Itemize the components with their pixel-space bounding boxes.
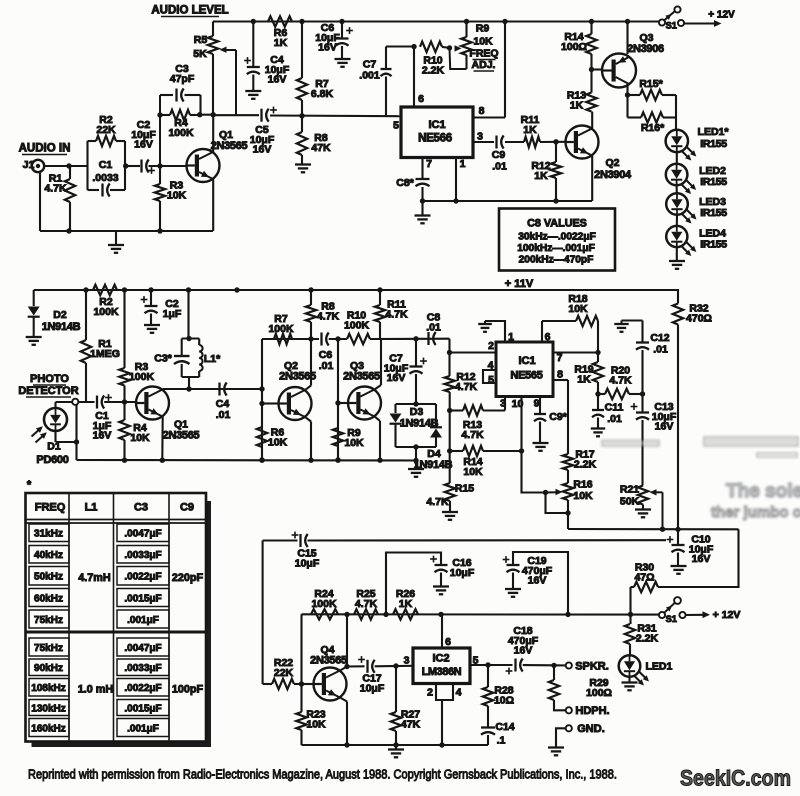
svg-text:4.7K: 4.7K	[461, 429, 484, 441]
svg-text:C1: C1	[99, 159, 113, 171]
svg-text:108kHz: 108kHz	[31, 683, 65, 694]
svg-text:4: 4	[488, 360, 494, 372]
svg-text:6: 6	[418, 93, 424, 105]
svg-text:10μF: 10μF	[295, 557, 320, 569]
svg-text:47pF: 47pF	[170, 73, 195, 85]
svg-text:50K: 50K	[620, 496, 640, 508]
svg-text:PD600: PD600	[36, 454, 68, 466]
svg-text:7: 7	[426, 158, 432, 170]
svg-text:.01: .01	[492, 161, 507, 173]
svg-text:6: 6	[545, 331, 551, 343]
svg-text:10K: 10K	[463, 466, 483, 478]
svg-text:*: *	[27, 479, 32, 491]
svg-text:1N914B: 1N914B	[400, 418, 439, 430]
svg-text:IC1: IC1	[518, 355, 535, 367]
svg-text:100K: 100K	[168, 127, 194, 139]
svg-text:2N3565: 2N3565	[163, 430, 200, 442]
svg-text:FREQ: FREQ	[35, 502, 66, 514]
svg-text:2N3906: 2N3906	[627, 43, 664, 55]
svg-text:ther jumbo opendunal: ther jumbo opendunal	[711, 504, 800, 521]
svg-text:75kHz: 75kHz	[34, 643, 63, 654]
svg-text:.0022μF: .0022μF	[124, 683, 161, 694]
svg-text:1K: 1K	[570, 99, 584, 111]
svg-text:.0033μF: .0033μF	[124, 550, 161, 561]
svg-text:90kHz: 90kHz	[34, 663, 63, 674]
svg-text:10μF: 10μF	[360, 682, 385, 694]
svg-text:.0033μF: .0033μF	[124, 663, 161, 674]
svg-text:1K: 1K	[523, 124, 537, 136]
svg-text:10K: 10K	[568, 303, 588, 315]
svg-text:ADJ.: ADJ.	[472, 59, 496, 71]
svg-text:IR155: IR155	[700, 207, 727, 219]
svg-text:1N914B: 1N914B	[414, 459, 453, 471]
svg-text:4.7K: 4.7K	[317, 310, 340, 322]
svg-text:1: 1	[508, 331, 514, 343]
svg-text:The sole: The sole	[726, 481, 800, 502]
svg-text:50kHz: 50kHz	[34, 572, 63, 583]
svg-text:C9: C9	[180, 502, 194, 514]
svg-text:.001μF: .001μF	[127, 615, 159, 626]
svg-text:R21: R21	[620, 484, 639, 496]
svg-text:IR155: IR155	[700, 138, 727, 150]
svg-text:.0015μF: .0015μF	[124, 593, 161, 604]
svg-text:4.7mH: 4.7mH	[78, 572, 111, 584]
svg-text:75kHz: 75kHz	[34, 615, 63, 626]
svg-text:4.7K: 4.7K	[355, 598, 378, 610]
svg-text:10K: 10K	[268, 436, 288, 448]
svg-text:60kHz: 60kHz	[34, 593, 63, 604]
svg-text:D3: D3	[410, 406, 424, 418]
svg-text:10K: 10K	[130, 432, 150, 444]
svg-text:C9: C9	[492, 149, 506, 161]
svg-text:1.0 mH: 1.0 mH	[78, 684, 114, 696]
svg-text:16V: 16V	[134, 139, 153, 151]
svg-text:.0047μF: .0047μF	[124, 529, 161, 540]
svg-text:SeekIC.com: SeekIC.com	[680, 766, 791, 791]
svg-text:100K: 100K	[268, 323, 294, 335]
svg-text:FREQ: FREQ	[469, 48, 498, 60]
svg-text:L1: L1	[85, 502, 98, 514]
svg-text:GND.: GND.	[577, 723, 605, 735]
svg-text:AUDIO LEVEL: AUDIO LEVEL	[151, 5, 228, 17]
svg-text:2N3904: 2N3904	[594, 169, 632, 181]
svg-text:.0022μF: .0022μF	[124, 572, 161, 583]
svg-text:R15*: R15*	[639, 78, 663, 90]
svg-text:9: 9	[534, 398, 540, 410]
svg-text:C11: C11	[605, 402, 624, 414]
svg-text:LED1*: LED1*	[698, 126, 730, 138]
svg-text:2.2K: 2.2K	[422, 64, 445, 76]
svg-text:22K: 22K	[96, 124, 116, 136]
svg-text:2N3565: 2N3565	[310, 655, 347, 667]
svg-text:1μF: 1μF	[163, 308, 182, 320]
svg-text:16V: 16V	[655, 421, 674, 433]
svg-text:31kHz: 31kHz	[34, 529, 63, 540]
svg-text:R16: R16	[573, 479, 592, 491]
svg-text:DETECTOR: DETECTOR	[18, 385, 78, 397]
svg-text:R16*: R16*	[641, 122, 665, 134]
svg-text:R15: R15	[455, 483, 474, 495]
svg-text:16V: 16V	[692, 553, 711, 565]
svg-text:16V: 16V	[318, 42, 337, 54]
svg-text:8: 8	[557, 369, 563, 381]
svg-text:.1: .1	[497, 735, 506, 747]
svg-text:16V: 16V	[514, 645, 533, 657]
svg-text:2N3565: 2N3565	[343, 371, 380, 383]
svg-text:1: 1	[460, 158, 466, 170]
svg-text:5: 5	[473, 655, 479, 667]
svg-text:NE565: NE565	[510, 370, 542, 382]
svg-text:220pF: 220pF	[172, 572, 204, 584]
svg-text:40kHz: 40kHz	[34, 550, 63, 561]
svg-text:47Ω: 47Ω	[634, 571, 654, 583]
svg-text:2N3565: 2N3565	[211, 140, 248, 152]
svg-text:10K: 10K	[306, 718, 326, 730]
svg-text:100Ω: 100Ω	[561, 41, 587, 53]
svg-text:LM386N: LM386N	[422, 666, 462, 678]
svg-text:100K: 100K	[311, 598, 337, 610]
svg-text:.0015μF: .0015μF	[124, 703, 161, 714]
svg-text:160kHz: 160kHz	[31, 723, 65, 734]
svg-text:200kHz—470pF: 200kHz—470pF	[519, 255, 594, 266]
svg-text:SPKR.: SPKR.	[575, 661, 609, 673]
svg-text:.01: .01	[653, 344, 668, 356]
svg-text:2: 2	[488, 340, 494, 352]
svg-text:+ 12V: + 12V	[713, 609, 741, 621]
svg-text:PHOTO: PHOTO	[30, 373, 69, 385]
svg-text:16V: 16V	[528, 575, 547, 587]
svg-text:R9: R9	[476, 23, 490, 35]
svg-text:R5: R5	[194, 34, 208, 46]
svg-text:100Ω: 100Ω	[586, 687, 612, 699]
svg-text:6.8K: 6.8K	[311, 88, 334, 100]
svg-text:1K: 1K	[274, 37, 288, 49]
svg-text:J1: J1	[23, 159, 35, 171]
svg-text:3: 3	[477, 131, 483, 143]
svg-text:C3: C3	[134, 502, 148, 514]
svg-text:Reprinted with permission from: Reprinted with permission from Radio-Ele…	[28, 767, 617, 782]
svg-text:.01: .01	[216, 409, 231, 421]
svg-text:47K: 47K	[311, 142, 331, 154]
svg-text:10: 10	[512, 398, 524, 410]
svg-text:2.2K: 2.2K	[636, 632, 659, 644]
svg-text:30kHz—.0022μF: 30kHz—.0022μF	[518, 232, 596, 243]
svg-text:C8 VALUES: C8 VALUES	[527, 218, 587, 230]
svg-text:1MEG: 1MEG	[90, 348, 120, 360]
svg-text:NE566: NE566	[418, 133, 452, 145]
svg-text:1K: 1K	[399, 598, 413, 610]
svg-text:4.7K: 4.7K	[44, 182, 67, 194]
svg-text:.01: .01	[607, 413, 622, 425]
svg-text:.001: .001	[359, 70, 380, 82]
svg-text:5K: 5K	[193, 48, 207, 60]
svg-text:100pF: 100pF	[172, 684, 204, 696]
svg-text:1K: 1K	[534, 170, 548, 182]
svg-text:2: 2	[427, 687, 433, 699]
svg-text:1K: 1K	[577, 373, 591, 385]
svg-text:.01: .01	[426, 321, 441, 333]
svg-text:10K: 10K	[573, 490, 593, 502]
svg-text:16V: 16V	[93, 430, 112, 442]
svg-text:.01: .01	[319, 360, 334, 372]
svg-text:5: 5	[488, 374, 494, 386]
svg-text:10K: 10K	[473, 36, 493, 48]
svg-text:470Ω: 470Ω	[686, 312, 712, 324]
svg-text:7: 7	[557, 352, 563, 364]
svg-text:100K: 100K	[93, 306, 119, 318]
svg-text:.0033: .0033	[92, 172, 118, 184]
svg-text:IR155: IR155	[700, 176, 727, 188]
svg-text:16V: 16V	[268, 74, 287, 86]
svg-text:HDPH.: HDPH.	[575, 705, 609, 717]
svg-text:+ 12V: + 12V	[708, 10, 735, 21]
svg-text:+ 11V: + 11V	[505, 278, 534, 290]
svg-text:10μF: 10μF	[450, 567, 475, 579]
svg-text:22K: 22K	[274, 667, 294, 679]
svg-text:D1: D1	[47, 441, 61, 453]
svg-text:1N914B: 1N914B	[42, 321, 81, 333]
svg-text:D2: D2	[53, 309, 67, 321]
svg-text:IC1: IC1	[428, 119, 445, 131]
svg-text:10Ω: 10Ω	[494, 694, 514, 706]
svg-text:10K: 10K	[167, 189, 187, 201]
svg-text:3: 3	[500, 398, 506, 410]
svg-text:4.7K: 4.7K	[609, 374, 632, 386]
svg-text:C12: C12	[650, 332, 669, 344]
svg-text:47K: 47K	[401, 718, 421, 730]
svg-text:16V: 16V	[387, 372, 406, 384]
svg-text:LED1: LED1	[646, 661, 673, 673]
svg-text:C8*: C8*	[396, 177, 414, 189]
svg-text:10K: 10K	[344, 437, 364, 449]
svg-text:IC2: IC2	[432, 653, 449, 665]
svg-text:.0047μF: .0047μF	[124, 643, 161, 654]
svg-text:AUDIO IN: AUDIO IN	[19, 143, 71, 155]
svg-text:3: 3	[404, 655, 410, 667]
svg-text:16V: 16V	[253, 144, 272, 156]
svg-text:100K: 100K	[129, 371, 155, 383]
svg-text:8: 8	[479, 105, 485, 117]
svg-text:2.2K: 2.2K	[574, 458, 597, 470]
svg-text:100K: 100K	[344, 319, 370, 331]
svg-text:Q2: Q2	[605, 157, 619, 169]
svg-text:C14: C14	[495, 721, 514, 733]
svg-text:4.7K: 4.7K	[385, 308, 408, 320]
svg-text:130kHz: 130kHz	[31, 703, 65, 714]
svg-text:C3*: C3*	[154, 353, 172, 365]
svg-text:4.7K: 4.7K	[426, 496, 449, 508]
svg-text:C9*: C9*	[549, 411, 567, 423]
svg-text:4: 4	[456, 687, 462, 699]
svg-text:L1*: L1*	[204, 353, 221, 365]
svg-text:5: 5	[393, 120, 399, 132]
svg-text:6: 6	[445, 636, 451, 648]
svg-text:2N3565: 2N3565	[279, 371, 316, 383]
svg-text:.001μF: .001μF	[127, 723, 159, 734]
svg-text:S1: S1	[666, 614, 677, 624]
svg-text:S1: S1	[666, 21, 677, 31]
svg-text:4.7K: 4.7K	[455, 381, 478, 393]
svg-text:100kHz—.001μF: 100kHz—.001μF	[517, 243, 595, 254]
svg-text:IR155: IR155	[700, 239, 727, 251]
